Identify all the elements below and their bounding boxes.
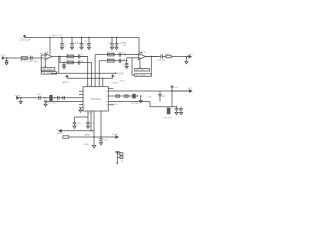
wire U1A lower row bbox=[60, 57, 92, 63]
wire lower right bus bbox=[150, 102, 172, 107]
capacitor C28 bbox=[99, 139, 103, 143]
svg-text:U1B: U1B bbox=[142, 52, 147, 54]
capacitor C19 series bbox=[31, 56, 32, 60]
wire to output bbox=[171, 56, 189, 58]
wire second left pin line marks bbox=[45, 100, 46, 103]
svg-text:BCK: BCK bbox=[57, 133, 62, 135]
svg-text:1 2 3 4: 1 2 3 4 bbox=[86, 85, 92, 87]
capacitor C1 on rail bbox=[60, 38, 64, 48]
ground bbox=[179, 112, 182, 114]
resistor RB4 bbox=[135, 74, 152, 77]
ground IC left bbox=[79, 108, 82, 113]
power flag +5VA bbox=[23, 34, 26, 37]
capacitor C5 on rail bbox=[87, 38, 91, 48]
resistor R6 bbox=[67, 61, 74, 64]
resistor R8 bbox=[108, 60, 115, 63]
junction bbox=[140, 95, 141, 96]
svg-text:2: 2 bbox=[84, 94, 85, 96]
wire analog bottom bus bbox=[51, 72, 116, 74]
capacitor C34 to ground bbox=[175, 108, 179, 112]
capacitor C17 bbox=[86, 117, 90, 126]
wire U1B feedback tap bbox=[139, 60, 141, 67]
svg-text:+3.3V: +3.3V bbox=[119, 81, 125, 83]
svg-text:DATA: DATA bbox=[84, 134, 90, 137]
junction bbox=[91, 78, 92, 79]
svg-text:1: 1 bbox=[84, 91, 85, 93]
wire U1A output row bbox=[52, 56, 88, 58]
IC left pin stubs bbox=[19, 91, 83, 108]
wire drop to IC pin bbox=[87, 57, 89, 87]
svg-text:RB_1006: RB_1006 bbox=[136, 70, 145, 72]
ground bbox=[19, 98, 22, 104]
svg-text:R5 100: R5 100 bbox=[67, 54, 75, 56]
svg-text:U1A: U1A bbox=[44, 51, 49, 54]
ground bbox=[185, 57, 188, 64]
svg-text:ZEROL: ZEROL bbox=[110, 104, 118, 106]
junction bbox=[61, 97, 62, 98]
junction bbox=[94, 78, 95, 79]
junction bbox=[54, 97, 55, 98]
svg-text:PCM1794: PCM1794 bbox=[91, 99, 102, 101]
resistor R7 bbox=[108, 53, 115, 56]
capacitor C10 series bbox=[119, 52, 121, 56]
junction bbox=[176, 106, 177, 107]
junction bbox=[171, 90, 173, 92]
ground bbox=[44, 103, 47, 106]
capacitor C3 on rail bbox=[80, 38, 84, 48]
op-amp U1B bbox=[139, 53, 146, 59]
ground pin3 bbox=[92, 145, 96, 148]
svg-text:R6 100: R6 100 bbox=[67, 60, 75, 62]
power flag DVDD bbox=[111, 74, 114, 78]
capacitor C21 electrolytic bbox=[49, 95, 52, 101]
capacitor C23 small bbox=[63, 96, 65, 100]
ground bbox=[73, 126, 76, 128]
ground bbox=[125, 66, 128, 68]
svg-text:DOUT: DOUT bbox=[112, 134, 119, 136]
connector flag VCOM bbox=[17, 97, 20, 100]
capacitor C26 series bbox=[146, 54, 167, 58]
svg-text:4: 4 bbox=[84, 101, 85, 103]
wire right column bbox=[172, 107, 177, 109]
junction bbox=[100, 136, 101, 137]
wire rail drop to U1A bbox=[49, 38, 51, 55]
svg-text:3: 3 bbox=[84, 98, 85, 100]
svg-text:AVDD: AVDD bbox=[63, 81, 69, 84]
ground bbox=[70, 47, 73, 49]
connector J1 audio in bbox=[2, 57, 44, 59]
resistor RB3 bbox=[135, 69, 150, 72]
svg-text:C21 47u: C21 47u bbox=[48, 103, 57, 105]
wire data line bbox=[61, 130, 94, 132]
capacitor C9 to ground bbox=[62, 63, 65, 67]
resistor R30 bbox=[166, 55, 171, 58]
jumper J2 bbox=[115, 152, 123, 163]
svg-text:C36 0.1uF: C36 0.1uF bbox=[20, 40, 31, 42]
ground bbox=[139, 96, 142, 103]
svg-text:17: 17 bbox=[106, 105, 108, 107]
capacitor C30 between rails bbox=[158, 91, 162, 102]
ground bbox=[5, 63, 8, 65]
capacitor C22 small bbox=[58, 96, 60, 100]
junction bbox=[6, 57, 7, 58]
ground bbox=[110, 47, 113, 49]
wire drop to IC pin bbox=[91, 63, 93, 87]
IC bottom pin 3 wire bbox=[93, 111, 95, 145]
capacitor C20 series bbox=[39, 96, 41, 100]
power flag AVDD bbox=[65, 75, 68, 79]
junction bbox=[137, 95, 138, 96]
capacitor C2 on rail bbox=[70, 38, 74, 48]
wire U1B output bbox=[146, 56, 158, 58]
resistor R13 bbox=[125, 95, 128, 97]
ground bbox=[87, 47, 90, 49]
IC bottom pin 1 wire bbox=[87, 111, 89, 117]
junction bbox=[58, 56, 59, 57]
capacitor C18 to ground bbox=[5, 58, 8, 63]
ground bbox=[115, 47, 118, 49]
connector flag VCC bbox=[189, 90, 192, 93]
polarity mark bbox=[44, 97, 46, 99]
connector flag SCK bbox=[59, 130, 62, 133]
ground bbox=[63, 67, 66, 69]
svg-text:OUT: OUT bbox=[188, 54, 193, 56]
svg-text:5: 5 bbox=[84, 105, 85, 107]
junction bbox=[20, 97, 21, 98]
svg-text:GND: GND bbox=[84, 144, 89, 146]
wire rail drop to U1B bbox=[138, 38, 140, 53]
wire xtal bus bbox=[75, 116, 89, 118]
capacitor C33 electrolytic bbox=[167, 108, 171, 115]
svg-text:18: 18 bbox=[106, 101, 108, 103]
svg-text:RB_10k06: RB_10k06 bbox=[136, 75, 146, 77]
svg-text:6: 6 bbox=[84, 108, 85, 110]
ground bbox=[99, 143, 102, 145]
svg-text:IN_L: IN_L bbox=[2, 55, 7, 57]
svg-text:SCK: SCK bbox=[57, 129, 62, 131]
junction bbox=[87, 78, 88, 79]
IC right pin wires bbox=[108, 88, 189, 105]
ground bbox=[175, 112, 178, 114]
svg-text:+5V: +5V bbox=[174, 87, 178, 89]
wire IC top supply rail bbox=[67, 77, 113, 79]
capacitor C12 to ground bbox=[125, 61, 128, 67]
svg-text:C26 10u: C26 10u bbox=[157, 60, 166, 62]
wire U1A inverting input feedback bbox=[41, 55, 45, 72]
resistor RB2 bbox=[41, 72, 56, 75]
capacitor C35 to ground bbox=[179, 107, 183, 113]
wire feedback right vertical bbox=[150, 57, 152, 77]
wire to VCC flag bbox=[172, 90, 189, 92]
connector flag DOUT bbox=[116, 136, 119, 139]
junction bbox=[99, 78, 100, 79]
wire data line 2 bbox=[69, 136, 116, 138]
junction bbox=[90, 130, 91, 131]
capacitor C16 bbox=[73, 117, 77, 126]
ground bbox=[60, 47, 63, 49]
capacitor C24 electrolytic bbox=[132, 94, 136, 99]
capacitor C14 on rail bbox=[115, 38, 119, 48]
capacitor C11 series bbox=[119, 59, 121, 63]
svg-text:AGND: AGND bbox=[117, 72, 124, 75]
wire right row B bbox=[99, 60, 127, 62]
junction bbox=[125, 54, 126, 55]
svg-text:RB_1006: RB_1006 bbox=[43, 69, 52, 71]
capacitor C8 series bbox=[78, 60, 80, 64]
wire top +5V rail bbox=[25, 37, 140, 39]
op-amp U1A bbox=[45, 53, 52, 59]
resistor R12 bbox=[116, 95, 119, 97]
svg-text:1uF: 1uF bbox=[123, 45, 127, 47]
junction bbox=[57, 101, 58, 102]
svg-text:C33 47u: C33 47u bbox=[163, 117, 172, 119]
connector flag OUT_R bbox=[189, 55, 192, 58]
svg-text:19: 19 bbox=[106, 96, 108, 98]
svg-text:R1 1k: R1 1k bbox=[21, 61, 28, 63]
resistor RB1 bbox=[41, 68, 55, 71]
IC bottom pin 4 wire bbox=[100, 111, 102, 139]
resistor R20 bbox=[63, 136, 69, 138]
power flag VCC1 bbox=[170, 85, 173, 91]
svg-text:Vcom: Vcom bbox=[15, 95, 21, 97]
IC top pin 5 stub bbox=[102, 78, 104, 86]
junction bbox=[116, 162, 118, 164]
ground bbox=[80, 47, 83, 49]
resistor R5 bbox=[67, 55, 74, 58]
svg-text:20: 20 bbox=[106, 91, 108, 93]
resistor R1 bbox=[21, 57, 27, 60]
junction bbox=[186, 56, 187, 57]
capacitor C7 series bbox=[74, 54, 88, 58]
wire U1A feedback tap bbox=[44, 60, 46, 67]
svg-text:R7 100: R7 100 bbox=[107, 52, 115, 54]
junction bbox=[49, 37, 50, 38]
svg-text:C24 10u: C24 10u bbox=[131, 103, 140, 105]
svg-text:VCC: VCC bbox=[188, 88, 193, 90]
IC U2 bbox=[83, 87, 108, 111]
IC bottom pin 2 wire bbox=[90, 111, 92, 131]
svg-text:DVDD: DVDD bbox=[112, 82, 119, 84]
wire feedback left vertical bbox=[132, 58, 135, 75]
wire right row A bbox=[95, 54, 138, 56]
ground bbox=[86, 126, 89, 128]
capacitor C13 on rail bbox=[110, 38, 114, 48]
svg-text:AVCC_5V: AVCC_5V bbox=[52, 34, 62, 37]
wire feedback vertical bbox=[58, 57, 60, 74]
junction bbox=[115, 72, 117, 74]
junction bbox=[93, 136, 94, 137]
svg-text:R8 100: R8 100 bbox=[107, 58, 115, 60]
svg-text:C19 10uF: C19 10uF bbox=[28, 61, 38, 63]
